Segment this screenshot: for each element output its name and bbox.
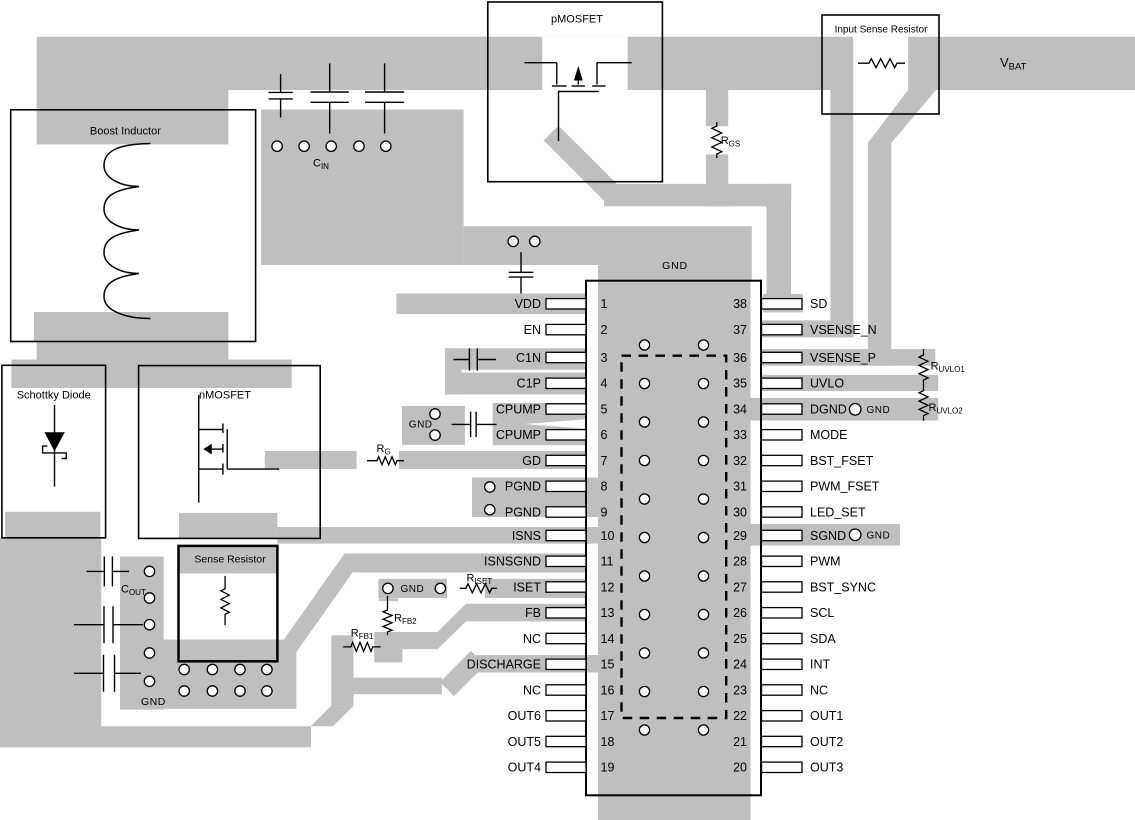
- svg-text:27: 27: [733, 580, 747, 594]
- svg-text:OUT4: OUT4: [508, 761, 541, 775]
- svg-text:C1P: C1P: [517, 377, 541, 391]
- svg-text:PWM_FSET: PWM_FSET: [810, 480, 880, 494]
- svg-text:28: 28: [733, 555, 747, 569]
- svg-text:4: 4: [601, 377, 608, 391]
- svg-text:31: 31: [733, 480, 747, 494]
- svg-text:GD: GD: [522, 454, 541, 468]
- svg-text:19: 19: [601, 761, 615, 775]
- svg-text:SDA: SDA: [810, 632, 836, 646]
- svg-text:Sense Resistor: Sense Resistor: [194, 554, 266, 566]
- svg-text:OUT2: OUT2: [810, 735, 843, 749]
- svg-text:9: 9: [601, 505, 608, 519]
- svg-text:NC: NC: [523, 683, 541, 697]
- svg-text:SD: SD: [810, 297, 827, 311]
- svg-text:OUT1: OUT1: [810, 709, 843, 723]
- svg-text:nMOSFET: nMOSFET: [199, 390, 251, 402]
- svg-text:2: 2: [601, 323, 608, 337]
- svg-text:ISET: ISET: [513, 580, 541, 594]
- svg-text:30: 30: [733, 505, 747, 519]
- svg-text:PWM: PWM: [810, 555, 841, 569]
- svg-text:10: 10: [601, 529, 615, 543]
- svg-text:20: 20: [733, 761, 747, 775]
- svg-text:SCL: SCL: [810, 606, 834, 620]
- svg-text:PGND: PGND: [505, 480, 541, 494]
- svg-text:GND: GND: [867, 405, 891, 416]
- svg-text:SGND: SGND: [810, 529, 846, 543]
- svg-text:38: 38: [733, 297, 747, 311]
- svg-text:BST_SYNC: BST_SYNC: [810, 580, 876, 594]
- svg-text:24: 24: [733, 658, 747, 672]
- svg-text:MODE: MODE: [810, 428, 848, 442]
- svg-text:35: 35: [733, 377, 747, 391]
- svg-text:DGND: DGND: [810, 402, 847, 416]
- svg-text:GND: GND: [141, 696, 166, 708]
- svg-text:NC: NC: [810, 683, 828, 697]
- svg-text:UVLO: UVLO: [810, 377, 844, 391]
- svg-text:21: 21: [733, 735, 747, 749]
- svg-text:VDD: VDD: [515, 297, 541, 311]
- svg-text:GND: GND: [401, 584, 425, 595]
- svg-text:12: 12: [601, 580, 615, 594]
- svg-text:33: 33: [733, 428, 747, 442]
- svg-text:OUT6: OUT6: [508, 709, 541, 723]
- svg-text:25: 25: [733, 632, 747, 646]
- svg-text:22: 22: [733, 709, 747, 723]
- svg-text:ISNS: ISNS: [512, 529, 541, 543]
- svg-text:11: 11: [601, 555, 614, 569]
- svg-text:6: 6: [601, 428, 608, 442]
- svg-text:VSENSE_N: VSENSE_N: [810, 323, 877, 337]
- svg-text:23: 23: [733, 683, 747, 697]
- svg-text:VSENSE_P: VSENSE_P: [810, 351, 876, 365]
- svg-text:ISNSGND: ISNSGND: [484, 555, 541, 569]
- svg-text:pMOSFET: pMOSFET: [551, 14, 603, 26]
- svg-text:OUT5: OUT5: [508, 735, 541, 749]
- svg-text:14: 14: [601, 632, 615, 646]
- svg-text:37: 37: [733, 323, 747, 337]
- svg-text:Schottky Diode: Schottky Diode: [17, 390, 91, 402]
- svg-text:NC: NC: [523, 632, 541, 646]
- svg-text:LED_SET: LED_SET: [810, 505, 866, 519]
- svg-text:16: 16: [601, 683, 615, 697]
- svg-text:13: 13: [601, 606, 615, 620]
- svg-text:GND: GND: [867, 531, 891, 542]
- svg-text:PGND: PGND: [505, 505, 541, 519]
- svg-text:7: 7: [601, 454, 608, 468]
- svg-text:FB: FB: [525, 606, 541, 620]
- svg-text:1: 1: [601, 297, 608, 311]
- svg-text:26: 26: [733, 606, 747, 620]
- svg-text:18: 18: [601, 735, 615, 749]
- svg-text:CPUMP: CPUMP: [496, 428, 541, 442]
- svg-text:34: 34: [733, 402, 747, 416]
- svg-text:15: 15: [601, 658, 615, 672]
- svg-text:36: 36: [733, 351, 747, 365]
- svg-text:CPUMP: CPUMP: [496, 402, 541, 416]
- svg-text:GND: GND: [409, 419, 433, 430]
- svg-text:Input Sense Resistor: Input Sense Resistor: [835, 25, 928, 36]
- svg-text:DISCHARGE: DISCHARGE: [467, 658, 541, 672]
- svg-text:5: 5: [601, 402, 608, 416]
- svg-text:Boost Inductor: Boost Inductor: [90, 126, 161, 138]
- svg-text:8: 8: [601, 480, 608, 494]
- svg-text:OUT3: OUT3: [810, 761, 843, 775]
- svg-text:EN: EN: [524, 323, 541, 337]
- svg-text:17: 17: [601, 709, 615, 723]
- svg-text:C1N: C1N: [516, 351, 541, 365]
- svg-text:BST_FSET: BST_FSET: [810, 454, 874, 468]
- svg-text:GND: GND: [662, 260, 688, 272]
- svg-text:INT: INT: [810, 658, 831, 672]
- svg-text:32: 32: [733, 454, 747, 468]
- svg-text:29: 29: [733, 529, 747, 543]
- svg-text:3: 3: [601, 351, 608, 365]
